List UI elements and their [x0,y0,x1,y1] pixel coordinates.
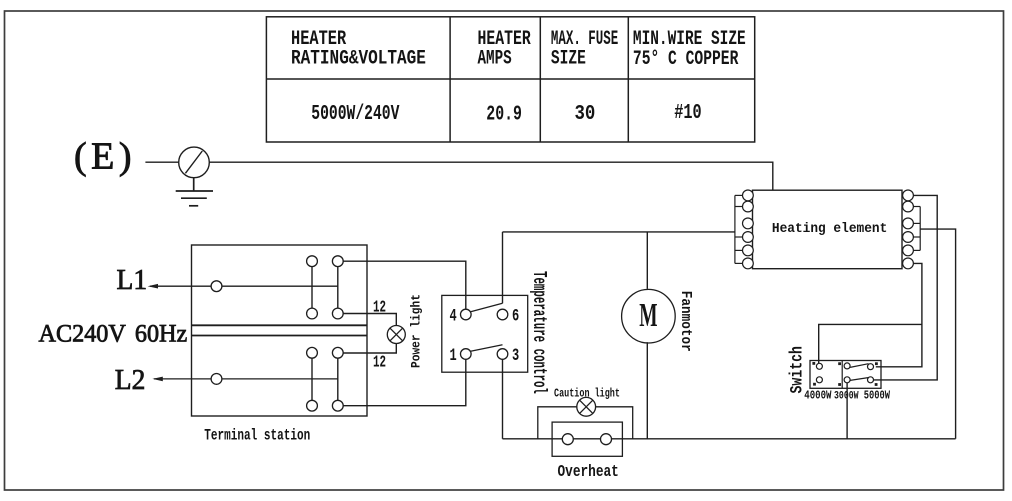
svg-text:AMPS: AMPS [478,49,512,71]
wire caution bypass left [538,407,577,439]
svg-text:1: 1 [450,345,457,366]
terminal station box [192,245,368,416]
temperature control box [442,295,528,372]
lamp caution light [577,397,596,416]
svg-text:Overheat: Overheat [558,461,619,481]
svg-text:Fanmotor: Fanmotor [677,291,694,352]
overheat contacts [562,434,573,445]
svg-text:(E): (E) [74,136,136,178]
svg-text:L1: L1 [117,264,148,296]
svg-text:3: 3 [512,345,519,366]
svg-text:HEATER: HEATER [478,28,532,51]
svg-text:12: 12 [373,353,386,372]
svg-text:#10: #10 [674,101,701,125]
wire bottom rail [503,438,956,440]
svg-text:12: 12 [373,298,386,317]
lamp power light [387,326,405,344]
svg-text:SIZE: SIZE [551,48,586,71]
heating element right bus [913,207,920,251]
svg-text:RATING&VOLTAGE: RATING&VOLTAGE [291,48,426,70]
heating element right terminals [903,190,914,269]
heating element box [753,190,903,269]
wire L2 arrow [154,378,338,380]
svg-text:4000W: 4000W [804,390,832,403]
wire terminal to pin4 [343,261,466,309]
terminal L2 circle [211,374,222,385]
terminal L1 circle [211,281,222,292]
svg-text:5000W: 5000W [864,390,891,403]
blade 1-3 [471,345,503,352]
switch terminal marks [812,362,877,386]
wire switch line branch to 4000W terminal [819,324,922,363]
wire terminal to power light [343,314,396,326]
svg-text:Power light: Power light [409,294,424,368]
wire motor to bottom rail [646,342,648,439]
svg-text:30: 30 [575,102,596,126]
svg-text:Switch: Switch [787,346,808,393]
svg-text:3000W: 3000W [834,389,859,402]
blade 4-6 [471,303,503,312]
switch divider [841,361,843,389]
svg-text:AC240V 60Hz: AC240V 60Hz [39,320,188,347]
svg-text:M: M [639,295,657,333]
wire switch output to bottom rail [846,383,848,439]
svg-text:Caution light: Caution light [554,387,620,401]
heating element left terminals [743,190,754,269]
wire power light return [343,343,396,353]
wire terminal to pin1 [343,359,466,405]
svg-text:L2: L2 [115,364,146,396]
heating element left bus [735,195,743,263]
wire motor feed [646,232,648,289]
wire earth rail to heating element chassis [209,162,773,190]
wire top rail [503,231,735,233]
svg-text:Terminal station: Terminal station [204,426,310,445]
svg-text:4: 4 [450,305,457,326]
terminal circles [307,256,344,411]
svg-text:5000W/240V: 5000W/240V [311,103,399,126]
switch box [810,361,881,389]
svg-text:Heating element: Heating element [772,221,887,236]
ground symbol [176,178,213,206]
motor fanmotor circle [622,289,676,343]
wire L1 arrow [150,285,338,287]
spec table grid [266,17,754,142]
overheat box [552,422,622,456]
svg-text:75° C COPPER: 75° C COPPER [633,48,739,71]
wire pin3 to bottom rail [502,359,504,438]
svg-text:6: 6 [512,305,519,326]
wire blade to top rail [502,232,504,303]
switch contacts [816,363,873,383]
wire caution bypass right [596,407,633,439]
wire element mid bus to bottom rail [920,229,955,439]
wire element pin1 to switch 5000W side [874,195,938,380]
wire (E) to earth circle [145,161,179,163]
divider rails [192,324,368,326]
terminal link wires [312,267,338,401]
svg-text:20.9: 20.9 [486,103,522,126]
earth electrode circle [179,147,210,178]
svg-text:Temperature control: Temperature control [528,271,550,394]
wire element pin6 to switch line [876,263,922,366]
switch blades [850,364,868,368]
